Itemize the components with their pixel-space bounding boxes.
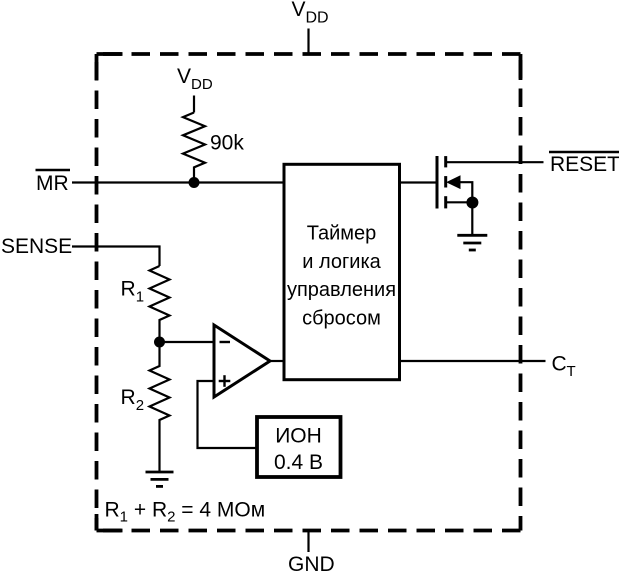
wire divider tap to comparator minus input [160,341,215,343]
svg-text:RESET: RESET [550,153,619,176]
wire timer output to CT pin [400,360,546,362]
wire comparator plus input to reference [198,381,258,448]
MR overline [36,169,71,172]
ground symbol below R2 [146,472,174,486]
svg-text:V: V [292,0,306,21]
wire VDD top pin stub [307,29,309,54]
RESET overline [549,151,619,154]
svg-text:0.4 В: 0.4 В [274,451,323,474]
transistor Q1 body arrow [447,176,460,188]
op-amp comparator triangle [214,325,270,397]
junction node dot MR / 90k [189,177,200,188]
svg-text:DD: DD [306,10,329,27]
IC boundary dashed box: left edge [95,54,99,531]
timer block text [287,223,396,330]
svg-text:90k: 90k [210,132,244,155]
IC boundary corner piece bottom-left [97,514,123,531]
svg-text:R1 + R2 = 4 МОм: R1 + R2 = 4 МОм [105,499,266,526]
wire source lead [446,201,473,203]
IC boundary corner piece top-left [97,54,123,80]
svg-text:MR: MR [36,172,69,195]
svg-text:Таймер: Таймер [307,223,377,245]
resistor R1 zigzag [150,266,170,342]
transistor Q1 gate bar [436,156,439,209]
ground symbol at MOSFET source [457,235,487,250]
resistor R 90k zigzag [183,113,205,183]
reference block text ИОН 0.4 В [274,425,323,475]
wire source to ground [471,202,473,236]
junction node dot divider tap [154,337,165,348]
svg-text:сбросом: сбросом [302,307,381,329]
svg-text:V: V [177,65,191,88]
svg-text:GND: GND [288,553,335,574]
wire SENSE input line [72,247,160,267]
svg-text:R: R [121,278,136,301]
comparator plus input glyph [219,375,231,387]
IC boundary dashed box: bottom edge [97,529,521,533]
svg-text:DD: DD [191,76,213,93]
svg-text:ИОН: ИОН [275,425,322,448]
svg-text:и логика: и логика [302,251,381,273]
wire internal VDD to resistor 90k [193,96,195,113]
timer logic block outline [284,164,400,379]
transistor Q1 channel segments [444,156,447,208]
IC boundary dashed box: top edge [97,52,521,56]
wire drain to RESET pin [446,161,544,163]
wire body to source junction [459,182,472,202]
junction dot at MOSFET source [466,197,478,209]
resistor R2 zigzag [150,342,170,471]
wire comparator output to timer block [270,360,284,362]
label VDD top [292,0,306,21]
IC boundary corner piece top-right [519,54,523,80]
wire MR input line [72,181,284,183]
svg-text:1: 1 [136,289,144,306]
voltage reference block ИОН outline [257,417,341,477]
svg-text:управления: управления [287,279,396,301]
svg-text:SENSE: SENSE [1,235,72,258]
svg-text:2: 2 [136,397,144,414]
svg-text:C: C [552,353,567,376]
wire GND bottom pin stub [307,532,309,552]
svg-text:R: R [121,386,136,409]
IC boundary dashed box: right edge [519,54,523,531]
wire timer to MOSFET gate [400,181,438,183]
svg-text:T: T [567,363,576,380]
comparator minus input glyph [220,341,231,343]
